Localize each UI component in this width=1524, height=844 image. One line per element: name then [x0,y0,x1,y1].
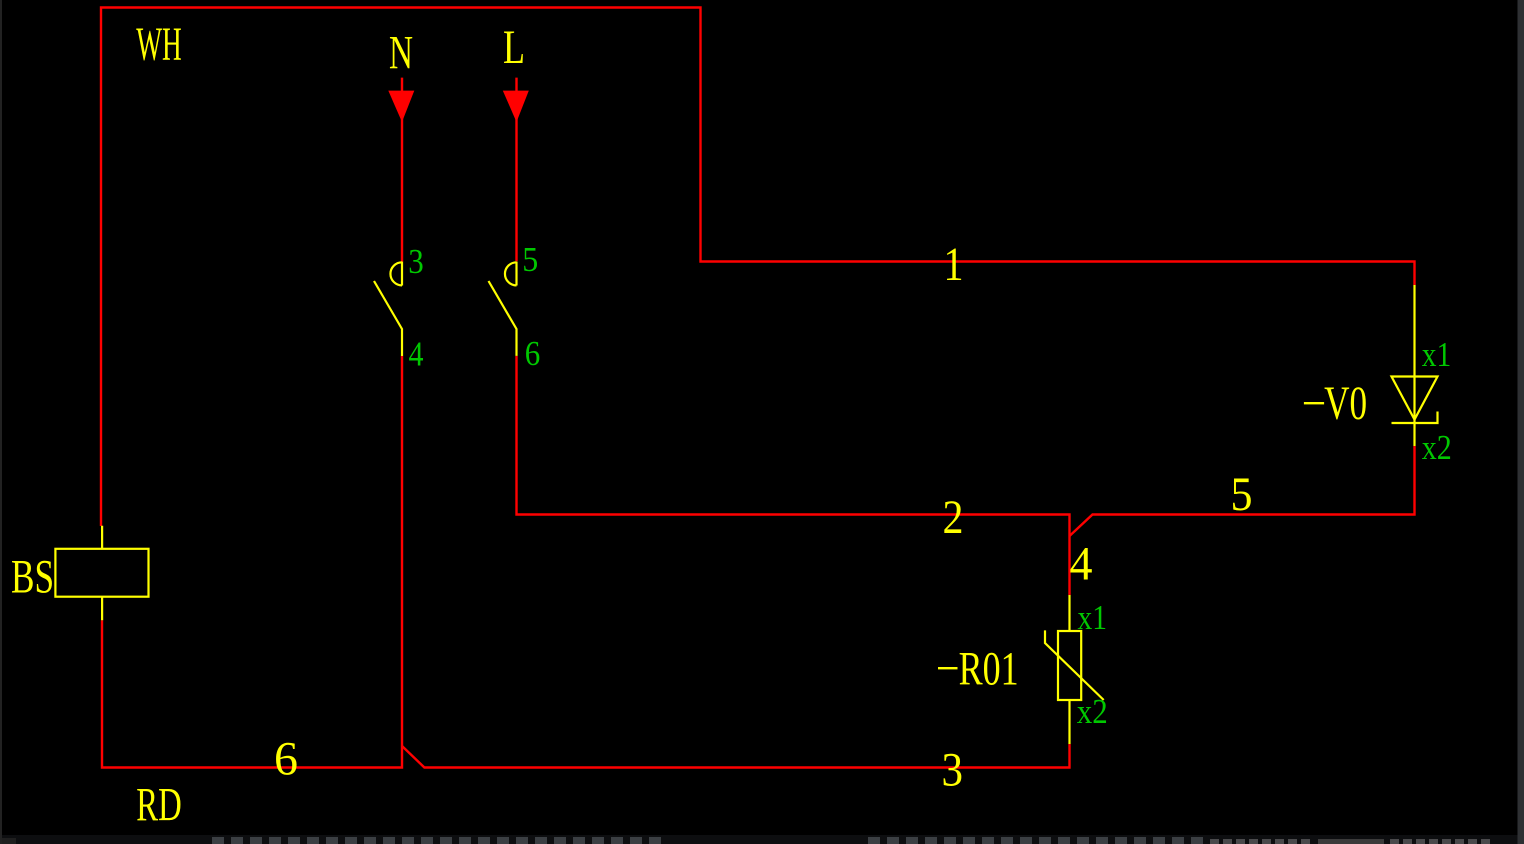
svg-text:4: 4 [409,335,424,374]
svg-text:2: 2 [943,491,964,544]
svg-text:R01: R01 [959,642,1019,695]
svg-text:4: 4 [1070,537,1093,590]
svg-text:V0: V0 [1324,377,1367,430]
svg-text:x1: x1 [1078,598,1108,637]
svg-text:WH: WH [136,18,182,71]
svg-text:x1: x1 [1422,335,1452,374]
svg-text:x2: x2 [1077,692,1108,731]
svg-text:BS: BS [11,551,54,604]
svg-text:6: 6 [274,732,298,785]
svg-text:RD: RD [136,779,182,832]
svg-text:3: 3 [408,242,424,281]
svg-text:1: 1 [944,238,964,291]
svg-text:x2: x2 [1422,428,1452,467]
svg-text:N: N [389,27,413,80]
svg-text:5: 5 [522,240,538,279]
svg-text:6: 6 [525,334,541,373]
svg-text:3: 3 [942,743,964,796]
svg-text:L: L [503,21,525,74]
svg-text:5: 5 [1231,468,1253,521]
